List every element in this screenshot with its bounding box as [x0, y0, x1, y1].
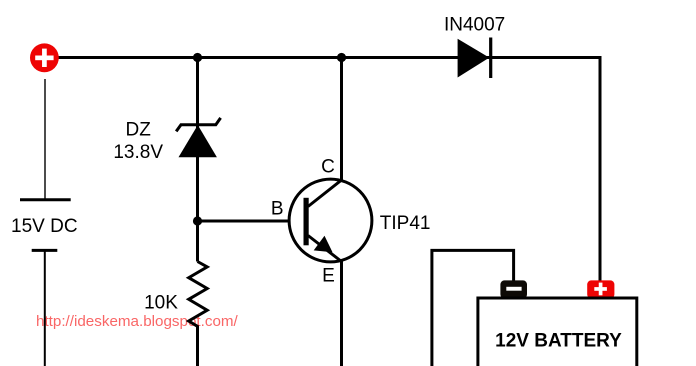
svg-text:10K: 10K: [144, 292, 178, 313]
svg-text:IN4007: IN4007: [444, 15, 505, 36]
svg-text:DZ: DZ: [126, 120, 152, 141]
svg-text:http://ideskema.blogspot.com/: http://ideskema.blogspot.com/: [36, 313, 239, 330]
svg-text:13.8V: 13.8V: [113, 142, 163, 163]
svg-text:TIP41: TIP41: [380, 213, 431, 234]
svg-text:12V BATTERY: 12V BATTERY: [495, 331, 622, 352]
svg-text:E: E: [322, 265, 335, 286]
svg-text:B: B: [271, 198, 284, 219]
svg-text:15V DC: 15V DC: [11, 216, 78, 237]
svg-text:C: C: [321, 157, 335, 178]
